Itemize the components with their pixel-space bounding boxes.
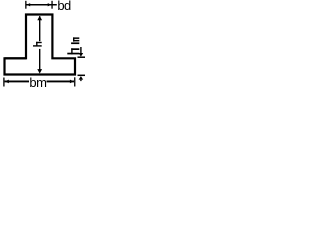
label h (rotated): [33, 42, 42, 47]
dimension hm: lower arrowhead (up): [79, 76, 84, 80]
dimension h: upper shaft: [39, 16, 41, 41]
dimension bm: left tick: [3, 78, 5, 87]
dimension bm: left arrowhead: [5, 80, 9, 84]
dimension hm: top tick: [78, 56, 86, 58]
dimension hm: upper arrowhead (down): [79, 53, 84, 57]
dimension bd: left arrowhead: [27, 3, 31, 6]
dimension hm: lower arrow shaft: [80, 80, 82, 82]
dimension bm: right arrowhead: [70, 80, 74, 84]
dimension hm: upper arrow shaft: [80, 47, 82, 53]
dimension bd: right tick: [51, 1, 53, 9]
base top edge left part: [5, 57, 27, 59]
svg-text:bd: bd: [57, 0, 71, 13]
label hm (rotated): m glyph: [71, 37, 79, 44]
dimension bd: right arrowhead: [48, 3, 52, 6]
dimension bd: left tick: [25, 1, 27, 9]
dimension h: down arrowhead: [37, 69, 42, 74]
svg-text:bm: bm: [29, 75, 46, 88]
dimension bd: line: [27, 4, 57, 6]
dimension bm: right line: [47, 80, 75, 82]
T-section outline: [5, 15, 76, 75]
dimension bm: right tick: [74, 77, 76, 86]
dimension h: up arrowhead: [37, 16, 42, 20]
dimension bm: left line: [5, 80, 29, 82]
dimension hm: bottom tick: [78, 74, 86, 76]
dimension h: lower shaft: [39, 49, 41, 70]
label hm (rotated): h glyph: [67, 48, 79, 54]
background: [0, 0, 85, 88]
